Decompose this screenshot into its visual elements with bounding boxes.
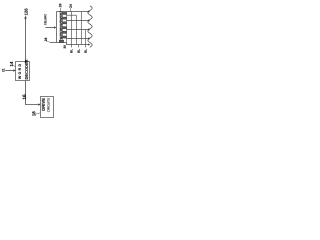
junction dot 4 — [88, 38, 90, 40]
bit line BL3 vertical — [80, 12, 82, 45]
gate cell 1 (hatched) — [63, 12, 67, 14]
node label CELSRC (middle signal) — [44, 14, 46, 25]
node label 28 (source line ref) — [45, 38, 47, 42]
word line label W5 — [60, 21, 62, 26]
bit line BL1 vertical — [71, 12, 73, 48]
node label 26 (top label A) — [59, 4, 61, 8]
arrowhead into U1 left — [13, 69, 15, 72]
arrowhead down on top wire — [24, 18, 27, 20]
block U1 (word decoder box) — [16, 62, 30, 81]
node label 14 (U1 reference) — [10, 62, 13, 67]
block U1 text line 2 — [25, 60, 28, 80]
wire left input into U1 — [5, 70, 14, 72]
block U2 (driver box) — [41, 97, 54, 118]
junction dot 5 — [88, 44, 90, 46]
wire U1 to U2 (down then right) — [26, 81, 39, 105]
node label 16 (on vertical wire) — [23, 95, 26, 100]
NAND string channel right edge — [66, 12, 68, 43]
node label 18 (U2 reference) — [32, 111, 35, 115]
node label 12 (top signal name) — [25, 9, 28, 16]
word line label W6 — [60, 16, 62, 21]
junction dot 1 — [88, 11, 90, 13]
word line label W7 — [60, 11, 62, 16]
word line rail 3 — [67, 29, 90, 31]
gate cell 2 (hatched) — [63, 17, 67, 19]
word line rail 2 — [67, 20, 90, 22]
break squiggle right edge — [88, 6, 92, 48]
bit line BL4 vertical — [85, 30, 87, 48]
arrowhead into array boundary — [54, 26, 56, 28]
array left boundary — [56, 12, 58, 43]
node label BL2 (bottom) — [78, 49, 80, 53]
leader line from 14 to U1 — [13, 65, 16, 68]
block U2 text line 1 — [42, 98, 45, 110]
gate cell 4 (hatched) — [63, 27, 67, 29]
NAND string channel left edge — [62, 12, 64, 43]
gate cell 7 / select contact (shifted left) — [59, 40, 63, 42]
arrowhead inside U1 top — [24, 62, 26, 64]
block U1 text line 1 — [18, 64, 20, 79]
word line label W3 — [60, 30, 62, 35]
junction dot 2 — [88, 20, 90, 22]
node label BL3 (bottom) — [85, 49, 87, 53]
word line rail top — [57, 11, 90, 13]
arrowhead into U2 left — [38, 103, 40, 106]
leader line from 28 to source line — [47, 41, 50, 42]
wire middle signal to array — [45, 27, 54, 29]
junction dot 3 — [88, 29, 90, 31]
word line label W4 — [60, 25, 62, 30]
source line bottom (stepped) — [50, 43, 89, 45]
stub from label 24 — [70, 8, 72, 11]
gate cell 5 (hatched) — [63, 31, 67, 33]
node label 24 (top label B) — [69, 4, 71, 8]
bit line BL2 vertical — [75, 15, 77, 44]
word line rail short (second) — [67, 14, 77, 16]
stub from label 26 — [60, 8, 62, 12]
block U2 text line 2 — [47, 98, 49, 112]
leader line from 18 to U2 — [35, 113, 40, 115]
gate cell 3 (hatched) — [63, 22, 67, 24]
gate cell 6 (hatched) — [63, 36, 67, 38]
node label BL1 (bottom) — [70, 49, 72, 53]
wire main vertical to block U1 — [25, 19, 27, 62]
word line rail 4 — [67, 38, 90, 40]
wire top stub — [25, 16, 27, 18]
word line label W2 — [60, 35, 62, 40]
node label 30 (under cell column) — [64, 45, 66, 48]
node label 21 (left input signal) — [2, 68, 4, 71]
source contact stub — [78, 45, 80, 48]
